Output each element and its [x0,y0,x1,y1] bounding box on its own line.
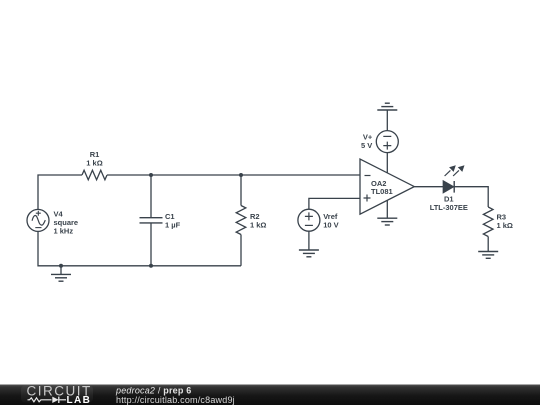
voltage source V4 (square 1 kHz) [27,209,78,235]
wire from R1 to op-amp minus input [107,174,360,176]
svg-text:pedroca2 / prep 6: pedroca2 / prep 6 [115,386,191,396]
ground under V4 [51,266,71,281]
svg-text:LAB: LAB [67,395,92,405]
wire Vref bottom to ground [308,231,310,250]
wire op-amp bottom to ground [386,200,388,218]
wire Vref top to op-amp plus input [309,198,360,209]
ground under Vref [299,250,319,257]
svg-text:1 kΩ: 1 kΩ [497,221,513,230]
op-amp OA2 (TL081) [360,159,414,214]
svg-text:10 V: 10 V [323,220,338,229]
svg-text:1 µF: 1 µF [165,220,181,229]
junction node at C1 top [149,173,153,177]
ground under R3 [478,252,498,259]
voltage source Vref (10 V) [298,209,339,231]
LED D1 (LTL-307EE) [430,165,468,212]
wire top-left from V4 to R1 [38,175,82,210]
resistor R1 [82,150,107,180]
svg-text:LTL-307EE: LTL-307EE [430,203,468,212]
svg-text:1 kΩ: 1 kΩ [250,220,266,229]
wire V+ source to op-amp top [386,153,388,173]
junction node at R2 top [239,173,243,177]
svg-text:5 V: 5 V [361,141,372,150]
resistor R3 [483,207,513,252]
wire op-amp output to LED [414,186,443,188]
svg-text:1 kHz: 1 kHz [54,226,74,235]
voltage source V+ (5 V) [361,131,398,153]
svg-text:1 kΩ: 1 kΩ [86,159,102,168]
capacitor C1 [140,175,181,266]
wire V+ top to ground [386,110,388,131]
resistor R2 [236,175,266,266]
svg-text:http://circuitlab.com/c8awd9j: http://circuitlab.com/c8awd9j [116,395,235,405]
ground under op-amp [377,218,397,225]
wire V4 bottom to bottom rail [38,231,241,265]
junction node at ground tap [59,264,63,268]
svg-text:TL081: TL081 [371,187,393,196]
junction node at C1 bottom [149,264,153,268]
ground above V+ (flipped) [377,103,397,110]
CircuitLab logo [27,384,92,405]
wire LED to R3 [454,187,488,207]
